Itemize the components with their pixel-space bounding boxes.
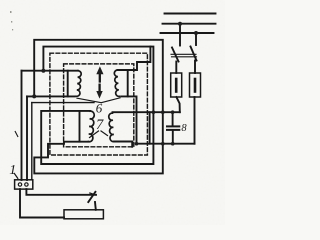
svg-text:8: 8	[181, 123, 187, 134]
svg-text:7: 7	[96, 117, 104, 133]
svg-text:1: 1	[9, 163, 16, 178]
svg-text:6: 6	[96, 101, 103, 116]
